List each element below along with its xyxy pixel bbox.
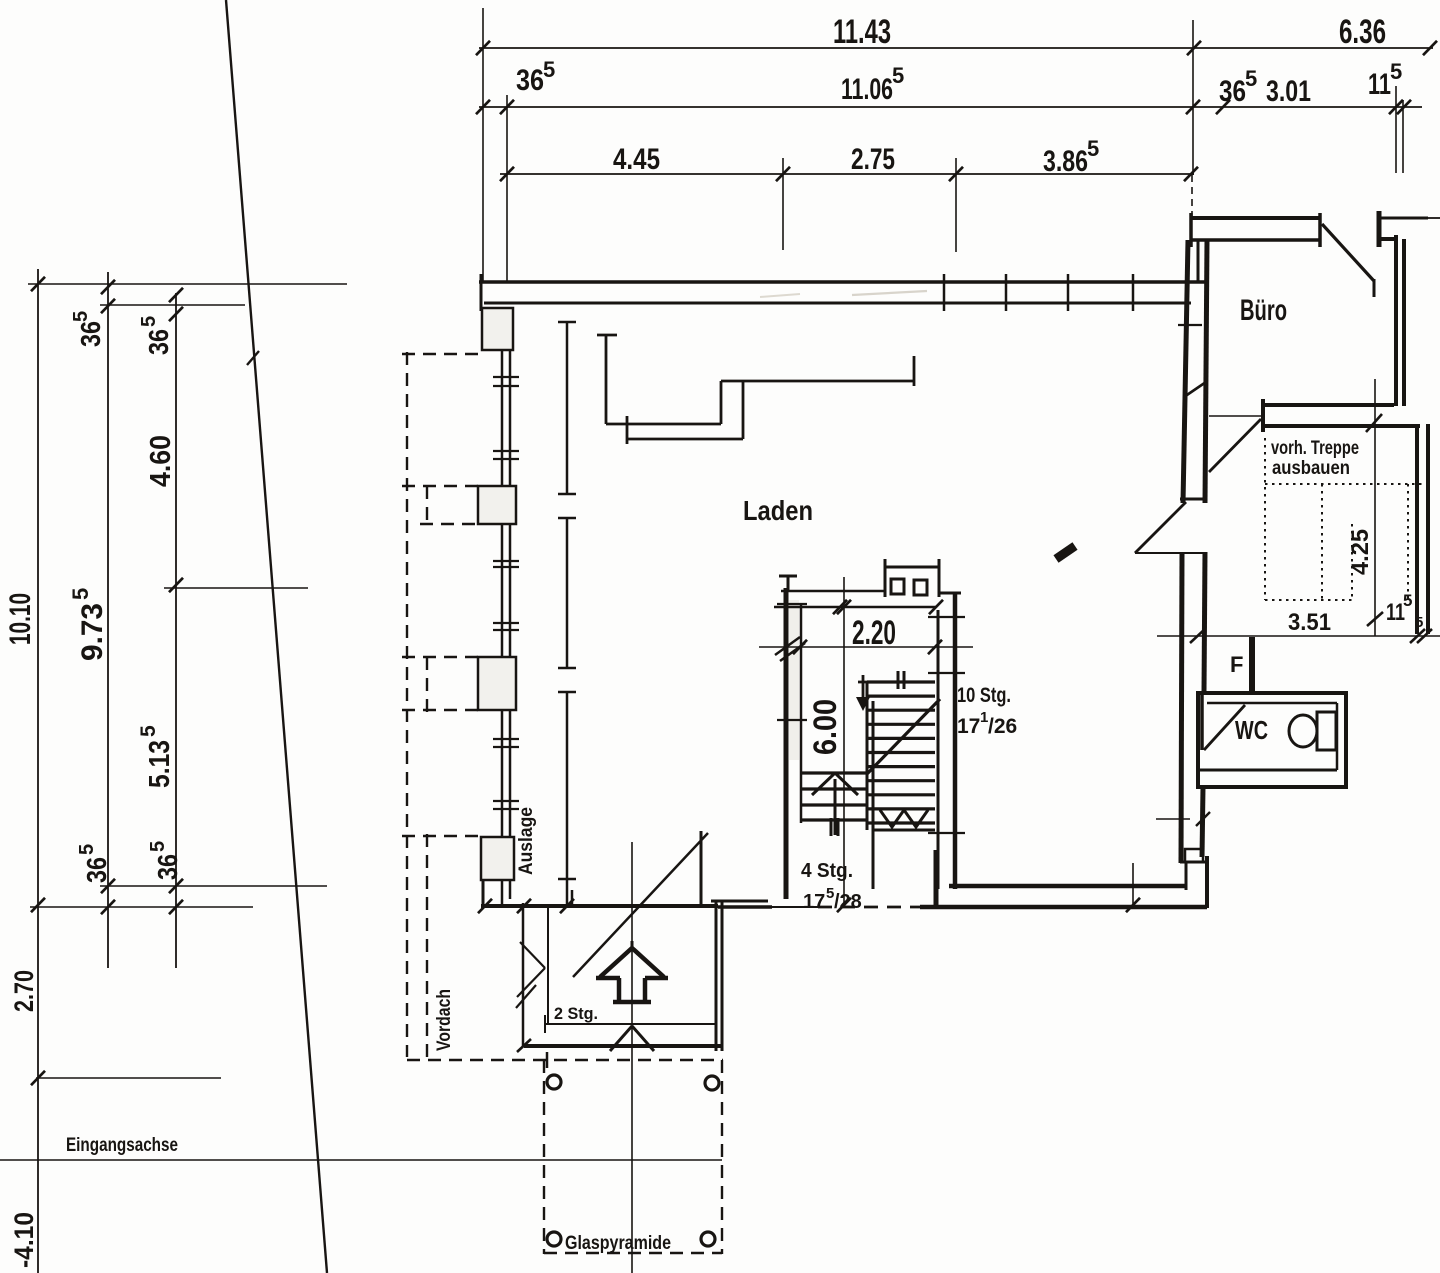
label 3.86.5 — [1043, 136, 1099, 178]
dimension line 11.43 / 6.36 (top) — [476, 41, 1437, 55]
label Vordach — [434, 989, 455, 1051]
wall: Auslage south sill — [478, 880, 718, 913]
svg-text:-4.10: -4.10 — [9, 1212, 39, 1268]
east wall outer line (with door gap) — [1181, 240, 1188, 863]
property boundary diagonal line — [226, 0, 327, 1273]
vertical dimension line B (36.5 / 9.73.5 / 36.5) — [101, 272, 115, 968]
WC room inner lines — [1198, 693, 1337, 770]
label WC — [1235, 715, 1268, 745]
label 17 5/28 — [803, 885, 862, 913]
svg-text:Eingangsachse: Eingangsachse — [66, 1135, 178, 1156]
label 4 Stg. — [801, 860, 853, 882]
extension line x783 — [782, 158, 784, 250]
up arrow left flight — [812, 773, 858, 835]
svg-text:3.01: 3.01 — [1266, 75, 1311, 108]
dimension line 6.00 (vertical) — [837, 577, 851, 912]
svg-text:36: 36 — [1219, 75, 1246, 108]
wall: west shop front glazing double line — [502, 310, 510, 905]
svg-text:F: F — [1230, 652, 1243, 677]
pillar P2 — [478, 486, 516, 524]
svg-text:ausbauen: ausbauen — [1272, 458, 1350, 479]
landing bracket with posts — [885, 559, 961, 597]
stair flight 4 steps treads — [801, 773, 867, 820]
svg-text:5.13: 5.13 — [144, 740, 176, 788]
label vorh. Treppe — [1271, 438, 1359, 459]
svg-text:9.73: 9.73 — [76, 603, 109, 661]
mullion tick pair 2 — [493, 451, 519, 459]
svg-text:/26: /26 — [988, 715, 1017, 738]
dimension line 36.5 / 11.06.5 / 36.5 / 3.01 / 11.5 — [476, 100, 1422, 114]
vestibule bottom wall — [517, 1039, 723, 1052]
label 36.5 (right of Buero) — [1219, 66, 1257, 108]
down V marks bottom of flight — [880, 810, 928, 827]
svg-text:5: 5 — [892, 63, 904, 88]
Vordach dashed tie y486 — [402, 485, 480, 487]
svg-text:5: 5 — [137, 725, 160, 737]
stairwell left inner line — [800, 605, 803, 823]
svg-text:4.60: 4.60 — [145, 435, 177, 487]
pillar P3 — [478, 657, 516, 710]
F shaft bar — [1249, 637, 1255, 694]
svg-text:5: 5 — [1403, 591, 1412, 610]
wall junction tick x1006 — [1005, 274, 1008, 311]
label -4.10 — [9, 1212, 39, 1268]
wall: north inner line — [484, 302, 1191, 305]
vestibule step side line — [547, 907, 549, 1025]
svg-text:6.36: 6.36 — [1339, 13, 1386, 51]
label Auslage — [516, 807, 537, 875]
interior display partition line x567 — [558, 322, 576, 907]
label 17 1/26 — [957, 709, 1017, 738]
svg-text:2 Stg.: 2 Stg. — [554, 1004, 598, 1023]
faint pencil note on north wall — [760, 291, 927, 297]
dotted old stair outline — [1265, 438, 1426, 600]
east wall door cap — [1180, 498, 1207, 501]
dimension line 4.25 (vertical) — [1367, 379, 1383, 636]
tick line y819 on east wall — [1156, 812, 1210, 826]
svg-text:5: 5 — [1415, 614, 1423, 631]
label 36.5 (C bottom) — [147, 841, 183, 880]
pillar P4 — [481, 837, 514, 880]
stair opening line y607 — [774, 600, 943, 614]
svg-text:36: 36 — [143, 329, 174, 355]
wall return at Buero NE corner — [1378, 237, 1397, 241]
label Laden — [743, 495, 813, 526]
svg-text:Vordach: Vordach — [434, 989, 455, 1051]
Treppe room east wall outer — [1426, 424, 1430, 634]
label 36.5 (B bottom) — [76, 844, 112, 883]
extension line x956 — [955, 158, 957, 252]
stair cut marks (top) — [898, 671, 904, 689]
Buero north wall bottom line — [1190, 213, 1320, 283]
stair going start stem + arrowhead — [856, 675, 870, 711]
extension line x1193 (partly dashed) — [1192, 20, 1193, 216]
Buero door post — [1377, 211, 1382, 247]
svg-text:3.51: 3.51 — [1288, 609, 1331, 636]
stair going line diagonal — [867, 699, 940, 774]
Buero north wall end cap x1320 — [1318, 213, 1322, 247]
label 2 Stg. — [554, 1004, 598, 1023]
stair cut marks (left flight) — [831, 818, 838, 836]
Treppe room east wall inner — [1415, 424, 1419, 634]
mullion tick pair 1 — [493, 377, 519, 386]
svg-text:/28: /28 — [834, 891, 862, 913]
Buero east wall outer line — [1402, 239, 1406, 406]
extension line y284 — [28, 283, 347, 285]
svg-text:36: 36 — [516, 64, 544, 97]
extension line y907 — [30, 906, 253, 908]
label 36.5 (B top) — [70, 311, 106, 347]
mullion tick pair 3 — [493, 561, 519, 567]
ticks on stairwell right wall — [928, 617, 965, 833]
label Buero — [1240, 294, 1287, 327]
Vordach dashed tie y657 — [402, 656, 478, 658]
svg-text:4 Stg.: 4 Stg. — [801, 860, 853, 882]
Vordach dashed tie y354 — [402, 353, 484, 355]
svg-text:5: 5 — [138, 316, 160, 327]
svg-text:2.70: 2.70 — [9, 970, 39, 1012]
extension line y886 — [100, 885, 327, 887]
stair top door line — [858, 681, 893, 684]
entrance door swing marks — [516, 942, 545, 1008]
ticks on east wall — [1178, 325, 1206, 397]
label 9.73.5 — [68, 588, 109, 661]
label 10.10 — [4, 593, 37, 645]
column mark (solid) — [1056, 546, 1075, 559]
Vordach dashed tie y836 — [402, 835, 480, 837]
east wall inner line (with door gap) — [1202, 240, 1207, 857]
label 11.5 (bottom) — [1386, 591, 1423, 631]
Glaspyramide dashed box — [544, 1060, 722, 1254]
label 4.25 — [1347, 529, 1374, 575]
ticks on stairwell left wall — [775, 604, 807, 720]
svg-text:vorh. Treppe: vorh. Treppe — [1271, 438, 1359, 459]
svg-text:5: 5 — [70, 311, 92, 322]
label 10 Stg. — [957, 684, 1011, 707]
wall stub below stair right wall — [934, 850, 939, 907]
svg-text:17: 17 — [803, 891, 825, 913]
svg-text:5: 5 — [1087, 136, 1099, 161]
svg-text:5: 5 — [147, 841, 169, 852]
svg-text:5: 5 — [543, 57, 555, 82]
label F — [1230, 652, 1243, 677]
label Glaspyramide — [565, 1233, 671, 1254]
vestibule step line — [545, 1015, 716, 1033]
mullion tick pair 5 — [493, 739, 519, 747]
svg-text:5: 5 — [76, 844, 98, 855]
mullion tick pair 6 — [493, 801, 519, 809]
Treppe wall left cap — [1261, 399, 1265, 432]
WC door swing — [1204, 705, 1245, 750]
stairwell right outer wall — [953, 592, 958, 889]
stair landing line y591 — [781, 590, 884, 593]
stairwell right inner line — [937, 610, 940, 889]
label 3.51 — [1288, 609, 1331, 636]
svg-text:10 Stg.: 10 Stg. — [957, 684, 1011, 707]
Glaspyramide corner circles — [547, 1075, 719, 1246]
Treppe wall band top line — [1262, 403, 1394, 407]
label 36.5 (C top) — [138, 316, 174, 355]
label 2.70 — [9, 970, 39, 1012]
Vordach dashed tie y710 — [402, 709, 478, 711]
Vordach dashed tie y524 — [420, 523, 478, 525]
extension line y588 — [164, 587, 308, 589]
pillar P1 — [482, 308, 513, 350]
Eingangsachse axis line — [0, 1159, 722, 1161]
svg-text:5: 5 — [1245, 66, 1257, 91]
entrance axis vertical — [631, 842, 633, 1273]
vestibule right wall double — [716, 901, 722, 1051]
svg-text:36: 36 — [75, 321, 106, 347]
Vordach dashed outline vertical 2 — [426, 486, 428, 1057]
label 2.75 — [851, 143, 895, 176]
svg-text:11.06: 11.06 — [841, 73, 893, 106]
treads upper flight — [867, 682, 935, 889]
mullion tick pair 4 — [493, 623, 519, 630]
entrance step chevron — [610, 1026, 654, 1051]
south wall band top line — [949, 884, 1186, 889]
label 6.36 — [1339, 13, 1386, 51]
label 2.20 — [852, 614, 896, 652]
slash tick on Treppe wall — [1366, 414, 1382, 432]
label 5.13.5 — [137, 725, 176, 788]
north wall continuation to east edge — [1379, 217, 1440, 220]
wall: north outer line — [479, 280, 1208, 284]
vertical dimension line A (10.10 / 2.70 / -4.10) — [31, 269, 45, 1273]
Buero north wall top line — [1190, 216, 1320, 220]
label ausbauen — [1272, 458, 1350, 479]
svg-text:6.00: 6.00 — [807, 699, 843, 755]
dimension line 4.45 / 2.75 / 3.86.5 — [500, 167, 1198, 181]
east wall door threshold + swing — [1135, 502, 1207, 553]
wall junction tick x944 — [943, 274, 946, 311]
label Eingangsachse — [66, 1135, 178, 1156]
Vordach dashed outline vertical 1 — [406, 352, 408, 1057]
label 11.06.5 — [841, 63, 904, 106]
Vordach dashed bottom tie — [407, 1052, 723, 1068]
svg-text:Laden: Laden — [743, 495, 813, 526]
svg-text:17: 17 — [957, 715, 980, 738]
extension line x1403 — [1402, 100, 1404, 173]
south-east corner jog — [1180, 849, 1208, 908]
Treppe door line + swing — [1209, 416, 1261, 472]
wall junction tick x1133 — [1132, 274, 1135, 311]
svg-text:11.43: 11.43 — [833, 13, 891, 51]
label 3.01 — [1266, 75, 1311, 108]
svg-text:2.75: 2.75 — [851, 143, 895, 176]
svg-text:Auslage: Auslage — [516, 807, 537, 875]
wall junction tick x1068 — [1067, 274, 1070, 311]
vertical dimension line C (36.5 / 4.60 / 5.13.5 / 36.5) — [169, 288, 183, 968]
entrance diagonal — [573, 833, 708, 977]
svg-text:36: 36 — [152, 854, 183, 880]
toilet — [1289, 712, 1336, 750]
dimension line 3.51 / 11.5 — [1157, 629, 1440, 643]
Buero east wall inner line — [1394, 235, 1398, 406]
south wall line y907 (thin/dashed part) — [718, 905, 922, 909]
extension line x1396 — [1395, 86, 1397, 173]
interior partition stub (stepped) — [597, 335, 914, 444]
svg-text:5: 5 — [68, 588, 93, 600]
stairwell left wall — [779, 576, 799, 899]
svg-text:36: 36 — [81, 857, 112, 883]
svg-text:Glaspyramide: Glaspyramide — [565, 1233, 671, 1254]
svg-text:4.45: 4.45 — [613, 143, 660, 176]
south wall thick corner piece — [711, 900, 768, 903]
svg-text:Büro: Büro — [1240, 294, 1287, 327]
entrance direction arrow — [596, 941, 668, 1002]
extension line y1078 — [36, 1077, 221, 1079]
vestibule left wall — [522, 903, 525, 1047]
svg-text:3.86: 3.86 — [1043, 145, 1088, 178]
Buero door swing — [1322, 224, 1374, 297]
extension tick x1133 at south wall — [1126, 863, 1140, 912]
WC room outer box — [1198, 693, 1346, 787]
label 6.00 — [807, 699, 843, 755]
label 11.5 (top right) — [1368, 59, 1402, 101]
label 36.5 (top left) — [516, 57, 555, 97]
svg-text:11: 11 — [1368, 68, 1391, 101]
extension line x483 — [482, 8, 484, 282]
label 11.43 — [833, 13, 891, 51]
door jamb x701 — [700, 831, 703, 907]
Treppe wall band bottom line — [1265, 424, 1420, 428]
label 4.45 — [613, 143, 660, 176]
dimension line 2.20 — [759, 640, 973, 654]
svg-text:5: 5 — [1390, 59, 1402, 84]
extension line y305 — [100, 304, 245, 306]
svg-text:10.10: 10.10 — [4, 593, 37, 645]
extension line x507 — [506, 95, 508, 282]
wall: north-west end cap — [480, 274, 483, 311]
svg-text:WC: WC — [1235, 715, 1268, 745]
svg-text:4.25: 4.25 — [1347, 529, 1374, 575]
svg-text:2.20: 2.20 — [852, 614, 896, 652]
label 4.60 — [145, 435, 177, 487]
south wall band bottom line — [920, 905, 1207, 910]
